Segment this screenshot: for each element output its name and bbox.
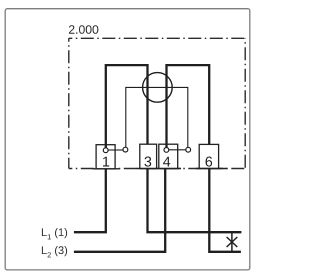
label L1 (1) (42, 228, 67, 239)
terminal strip solid base segments (93, 168, 228, 170)
wire terminal 3 to lamp rail (148, 169, 242, 233)
wire L1 to terminal 1 (74, 169, 106, 232)
terminal 4 digit (163, 157, 170, 167)
lamp (indicator) symbol (227, 232, 238, 252)
meter boundary (dash-dot box) top (69, 37, 245, 39)
meter boundary (dash-dot box) right (244, 38, 246, 168)
terminal box 6 (199, 144, 218, 168)
link terminal circle in box 1 (103, 148, 108, 153)
voltage tap loop (thin) (126, 87, 188, 147)
voltage link wire 1-2 (108, 149, 123, 151)
link terminal circle right of box 4 (186, 147, 191, 152)
wire terminal 6 down to lamp return (209, 169, 241, 252)
link terminal circle right of box 1 (123, 147, 128, 152)
meter boundary (dash-dot box) left (68, 38, 70, 168)
measuring element circle (143, 73, 173, 103)
label 2.000 (meter constant) (69, 25, 99, 34)
wire L2 to terminal 4 (74, 169, 165, 252)
terminal box 3 (140, 144, 157, 168)
terminal box 1 (96, 145, 115, 169)
terminal box 4 (159, 144, 178, 168)
meter boundary (dash-dot box) bottom (69, 168, 245, 170)
terminal 3 digit (145, 157, 152, 167)
terminal 6 digit (206, 157, 213, 167)
voltage link wire 4-5 (169, 149, 186, 151)
label L2 (3) (42, 246, 67, 257)
link terminal circle in box 4 (164, 148, 169, 153)
terminal 1 digit (103, 157, 109, 167)
current coil loop right (terminal 4 to 6) (167, 65, 210, 147)
current coil loop left (terminal 1 to 3) (106, 65, 148, 148)
